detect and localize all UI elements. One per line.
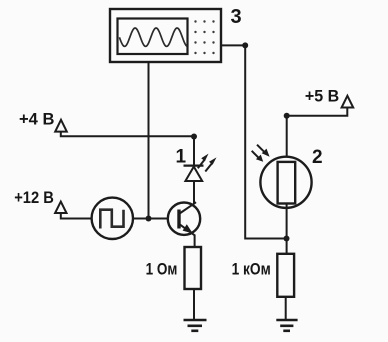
LED 1 [184,154,217,181]
svg-text:3: 3 [231,6,242,28]
photoresistor 2 [252,145,312,208]
junction at LED top corner [191,134,197,140]
junction at photoresistor bottom node [284,236,290,242]
svg-text:+5 В: +5 В [305,88,339,106]
junction at transistor base node [146,216,152,222]
svg-text:1 Ом: 1 Ом [146,260,178,278]
wire down to LED [193,137,195,166]
ground left [184,320,207,331]
svg-text:2: 2 [312,147,323,168]
resistor R1 [185,247,202,289]
oscilloscope 3 [110,9,221,62]
svg-text:+12 В: +12 В [14,189,54,207]
wire scope right to node [221,44,245,46]
wire emitter to resistor R1 [194,235,196,248]
wire +5 В to photoresistor top [287,108,348,116]
svg-text:+4 В: +4 В [19,111,54,129]
svg-text:1 кОм: 1 кОм [232,260,271,278]
terminal +12 В [55,202,66,213]
wire generator to base [133,218,178,220]
generator G1 [92,198,133,239]
wire R1 to ground [193,289,195,319]
junction at scope output node [242,42,248,48]
wire node down and right to photoresistor bottom node [245,45,286,238]
wire +4 В to LED anode node [61,132,194,137]
resistor R2 [277,254,294,297]
transistor VT1 [168,202,200,235]
terminal +4 В [55,120,67,132]
wire scope bottom to transistor base node [148,62,150,219]
wire photoresistor to resistor R2 [286,204,288,254]
wire +12 В to generator [61,213,92,219]
wire LED to collector [193,181,195,204]
terminal +5 В [342,96,354,108]
ground right [276,320,297,331]
wire R2 to ground [285,297,287,319]
wire down to photoresistor [286,116,288,162]
junction at photoresistor top node [284,113,290,119]
